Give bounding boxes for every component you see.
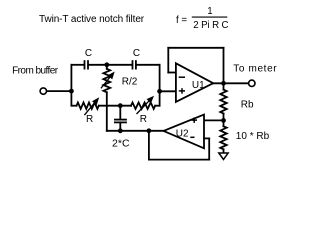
svg-text:2*C: 2*C	[112, 138, 130, 150]
svg-text:Rb: Rb	[241, 99, 254, 110]
svg-text:C: C	[85, 48, 92, 59]
svg-text:U2: U2	[176, 129, 189, 140]
svg-text:U1: U1	[192, 80, 205, 91]
svg-text:10 * Rb: 10 * Rb	[236, 131, 270, 142]
svg-text:C: C	[133, 48, 140, 59]
svg-text:f =: f =	[176, 15, 187, 26]
svg-text:R/2: R/2	[122, 77, 138, 88]
svg-text:2 Pi R C: 2 Pi R C	[193, 20, 228, 31]
svg-text:R: R	[140, 114, 147, 125]
svg-text:1: 1	[207, 6, 212, 17]
svg-text:R: R	[86, 114, 93, 125]
svg-text:To meter: To meter	[233, 63, 277, 74]
svg-text:Twin-T active notch filter: Twin-T active notch filter	[39, 14, 145, 25]
svg-text:From buffer: From buffer	[12, 65, 59, 76]
